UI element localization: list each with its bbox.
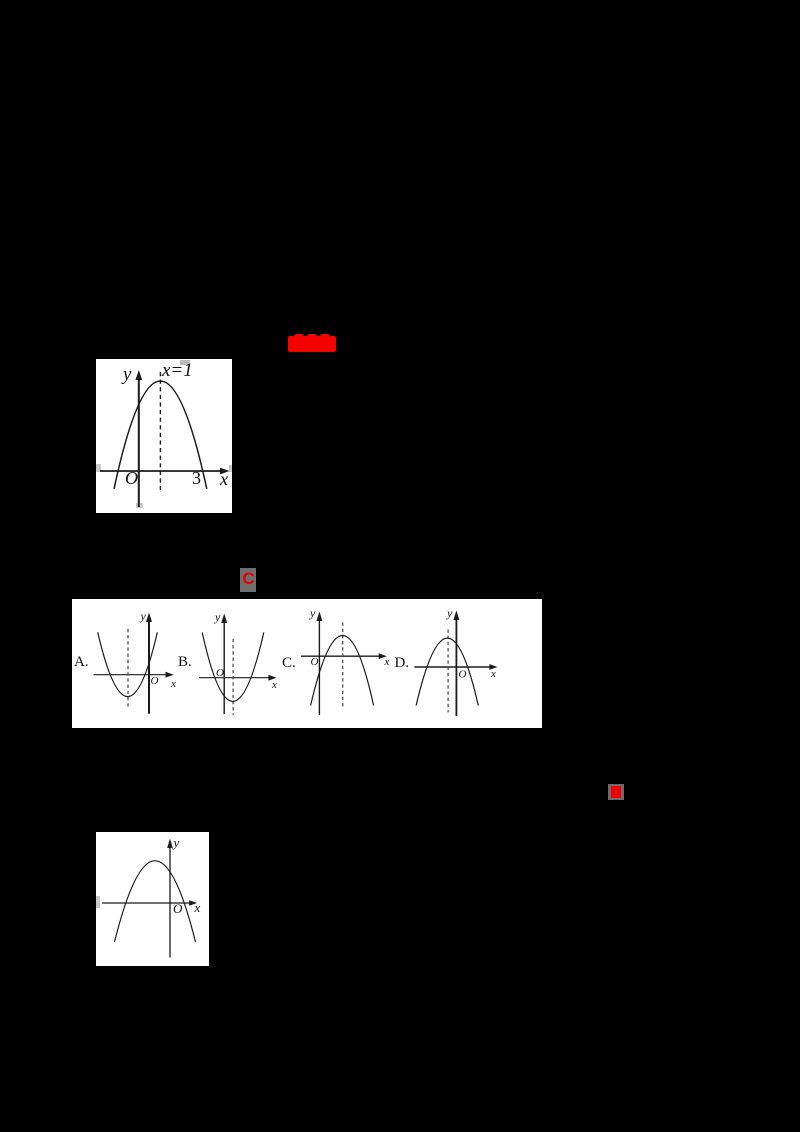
svg-text:O: O <box>311 656 319 668</box>
svg-text:D.: D. <box>395 655 410 671</box>
svg-text:O: O <box>125 468 138 488</box>
svg-text:x: x <box>194 900 201 915</box>
svg-text:C.: C. <box>282 655 296 671</box>
svg-text:B.: B. <box>178 654 192 670</box>
svg-text:x: x <box>219 469 228 489</box>
svg-text:y: y <box>446 606 453 620</box>
svg-text:y: y <box>214 610 221 624</box>
svg-text:O: O <box>459 669 467 681</box>
svg-text:y: y <box>140 609 147 623</box>
svg-text:y: y <box>309 606 316 620</box>
svg-text:x=1: x=1 <box>161 360 193 381</box>
svg-text:3: 3 <box>192 468 201 488</box>
svg-text:x: x <box>490 668 496 680</box>
svg-text:O: O <box>173 901 183 916</box>
svg-text:y: y <box>121 364 132 385</box>
svg-text:O: O <box>216 667 224 679</box>
svg-text:x: x <box>384 656 390 668</box>
svg-text:x: x <box>170 678 176 690</box>
svg-text:x: x <box>271 679 277 691</box>
svg-text:A.: A. <box>74 654 89 670</box>
svg-text:O: O <box>151 675 159 687</box>
svg-text:y: y <box>172 835 180 850</box>
